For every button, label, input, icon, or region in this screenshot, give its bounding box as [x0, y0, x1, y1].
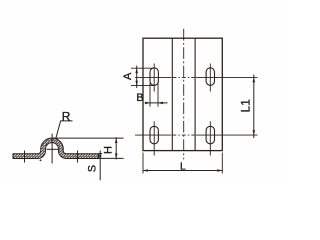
H arrow down	[115, 154, 118, 159]
plate outline	[143, 38, 222, 150]
H extension bottom	[99, 157, 124, 159]
bottom row horizontal centerline left	[135, 134, 171, 136]
bottom row horizontal centerline right + L1 ext	[196, 134, 257, 136]
R center cross	[47, 148, 59, 150]
A arrow up	[135, 68, 138, 73]
hole centerline tick left	[24, 151, 26, 163]
L extension right	[221, 153, 223, 174]
S arrow down	[99, 155, 102, 159]
svg-text:B: B	[136, 92, 143, 104]
dimension A extension bottom	[131, 85, 155, 87]
top row horizontal centerline middle dashed	[172, 76, 195, 78]
svg-text:S: S	[86, 165, 98, 172]
centerline dot	[40, 159, 42, 161]
hole centerline tick right	[77, 151, 79, 163]
svg-text:L: L	[180, 161, 186, 173]
H arrow up	[115, 138, 118, 143]
B arrow right (points left to 158)	[158, 102, 163, 105]
dimension B extension left	[149, 83, 151, 107]
L arrow left	[143, 169, 148, 172]
dimension L1 line	[253, 75, 255, 139]
svg-text:L1: L1	[238, 99, 252, 113]
bottom row horizontal centerline middle dashed	[172, 134, 195, 136]
fold line right	[194, 38, 196, 150]
leader R	[56, 121, 73, 138]
slot vertical centerline BR	[209, 121, 211, 155]
fold line left	[171, 38, 173, 150]
slot bottom-left	[150, 126, 158, 144]
vertical centerline (dash-dot)	[183, 29, 185, 160]
slot bottom-right	[206, 126, 214, 144]
dimension B line	[145, 102, 168, 104]
H extension top	[53, 137, 124, 139]
slot vertical centerline TR	[209, 64, 211, 92]
svg-text:H: H	[102, 146, 114, 154]
dimension A line	[136, 66, 138, 88]
dimension B extension right	[157, 83, 159, 107]
top row horizontal centerline left	[135, 76, 171, 78]
S extension line / dim	[99, 151, 101, 181]
slot vertical centerline TL	[153, 64, 155, 92]
A arrow down	[135, 81, 138, 86]
S arrow up	[99, 154, 102, 158]
B arrow left (points right to 150)	[145, 102, 150, 105]
S top extension stub	[99, 153, 103, 155]
slot top-left	[150, 68, 158, 86]
top row horizontal centerline right + L1 ext	[196, 76, 257, 78]
dimension L line	[143, 170, 222, 172]
dimension H line	[115, 137, 117, 159]
slot top-right	[206, 68, 214, 86]
L arrow right	[217, 169, 222, 172]
L1 arrow down	[253, 130, 256, 135]
strap section band (hatched)	[13, 138, 99, 158]
slot vertical centerline BL	[153, 121, 155, 155]
svg-text:R: R	[62, 109, 71, 123]
L extension left	[142, 153, 144, 174]
L1 arrow up	[253, 77, 256, 82]
dimension A extension top	[131, 67, 155, 69]
hump vertical centerline	[51, 134, 53, 164]
svg-text:A: A	[122, 72, 134, 80]
